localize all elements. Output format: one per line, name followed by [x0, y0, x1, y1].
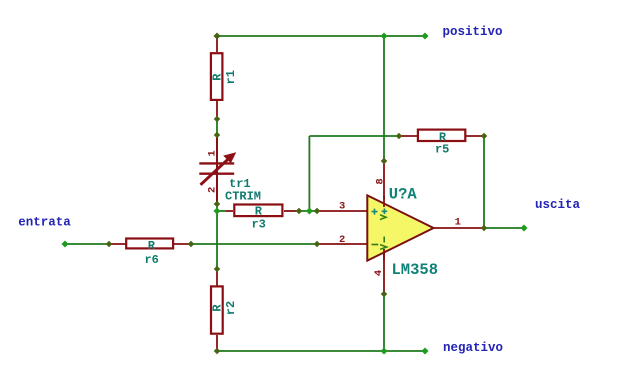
designator r1: [224, 70, 238, 84]
node pin dot pin3 end: [314, 208, 321, 215]
node endpoint negativo: [421, 347, 428, 354]
svg-text:4: 4: [373, 270, 385, 276]
node pin dot pin4 end: [381, 291, 388, 298]
wire bottom negative rail: [217, 350, 425, 352]
node pin dot trimmer bottom: [214, 201, 221, 208]
op-amp V- mark: [380, 237, 387, 250]
wire trimmer through lead: [216, 135, 218, 204]
resistor R6 body: [126, 239, 173, 249]
pin number 4: [373, 270, 385, 276]
resistor R5 body: [418, 130, 465, 141]
wire r5 pin2 lead: [466, 135, 484, 137]
node pin dot output: [481, 225, 488, 232]
svg-text:entrata: entrata: [18, 216, 71, 230]
svg-text:2: 2: [339, 234, 345, 246]
wire r6 pin1 lead: [109, 243, 126, 245]
svg-text:R: R: [211, 73, 225, 81]
wire op-amp pin4 lead: [383, 250, 385, 294]
wire feedback vertical to pin3 node: [308, 136, 310, 211]
svg-text:8: 8: [375, 178, 387, 184]
wire r2 pin1 lead: [216, 269, 218, 286]
wire r6 to pin2: [191, 243, 317, 245]
svg-text:R: R: [211, 304, 225, 312]
node pin dot trimmer top: [214, 132, 221, 139]
op-amp V+ mark: [382, 209, 388, 215]
wire r3 to pin3: [299, 210, 317, 212]
wire left vertical trimmer to r2: [216, 204, 218, 269]
node endpoint uscita: [520, 224, 527, 231]
svg-text:2: 2: [207, 187, 219, 193]
wire r5 pin1 lead: [399, 135, 417, 137]
wire r1 pin1 lead: [216, 36, 218, 52]
wire pin4 interior stub: [383, 249, 385, 260]
wire vertical to op-amp V+: [383, 36, 385, 161]
node pin dot top-left corner: [213, 32, 220, 39]
wire feedback horizontal to r5: [309, 135, 399, 137]
svg-text:negativo: negativo: [443, 341, 503, 355]
node endpoint positivo: [421, 32, 428, 39]
node pin dot r2 bottom: [214, 348, 221, 355]
node pin dot r6 right: [188, 241, 195, 248]
svg-text:CTRIM: CTRIM: [225, 190, 261, 204]
capacitor TR1 trimmer plates: [199, 163, 234, 173]
node pin dot pin2 end: [314, 241, 321, 248]
node pin dot r2 top: [214, 266, 221, 273]
wire entrata to r6: [65, 243, 109, 245]
designator r2: [224, 301, 238, 315]
junction node at feedback/pin3: [306, 207, 313, 214]
wire op-amp pin8 lead: [383, 161, 385, 199]
svg-text:LM358: LM358: [392, 261, 439, 279]
wire op-amp pin2 lead: [317, 243, 368, 245]
wire r3 pin2 lead: [284, 210, 299, 212]
wire r1 to trimmer: [216, 119, 218, 135]
pin number 2 of trimmer: [207, 187, 219, 193]
wire top positive rail: [217, 35, 425, 37]
svg-text:1: 1: [207, 150, 219, 156]
pin number 8: [375, 178, 387, 184]
svg-text:r2: r2: [224, 301, 238, 315]
node pin dot pin8 end: [381, 158, 388, 165]
svg-text:r3: r3: [251, 218, 265, 232]
wire r3 pin1 lead: [226, 210, 233, 212]
value label R of r1: [211, 73, 225, 81]
node pin dot r6 left: [106, 241, 113, 248]
svg-text:U?A: U?A: [389, 186, 418, 204]
junction node at trimmer/r3 tap: [213, 207, 220, 214]
svg-text:uscita: uscita: [535, 198, 581, 212]
junction node at positive rail / V+: [380, 32, 387, 39]
node pin dot r1 bottom: [214, 116, 221, 123]
wire output to uscita: [484, 227, 524, 229]
wire r5 right to output node: [483, 136, 485, 228]
svg-text:positivo: positivo: [443, 25, 503, 39]
capacitor TR1 trimmer arrow: [201, 152, 237, 185]
pin number 1 of trimmer: [207, 150, 219, 156]
wire op-amp pin1 output lead: [433, 227, 484, 229]
junction node at negative rail / pin4: [380, 347, 387, 354]
wire op-amp pin3 lead: [317, 210, 368, 212]
node pin dot r3 right: [296, 208, 303, 215]
wire node to r3: [217, 210, 226, 212]
value label R of r2: [211, 304, 225, 312]
wire r2 pin2 lead: [216, 335, 218, 351]
svg-text:R: R: [148, 239, 156, 253]
node pin dot r5 left: [396, 133, 403, 140]
svg-text:r1: r1: [224, 70, 238, 84]
svg-text:r6: r6: [144, 253, 158, 267]
resistor R3 body: [234, 205, 282, 217]
resistor R2 body: [211, 286, 223, 333]
wire r1 pin2 lead: [216, 101, 218, 119]
op-amp plus input mark: [372, 209, 378, 215]
svg-text:R: R: [255, 205, 263, 219]
svg-text:r5: r5: [435, 143, 449, 157]
op-amp minus input mark: [372, 244, 379, 246]
node pin dot r5 right: [481, 133, 488, 140]
wire pin8 interior stub: [383, 196, 385, 207]
svg-text:3: 3: [339, 201, 345, 213]
node endpoint entrata: [61, 240, 68, 247]
op-amp U1 body: [367, 195, 433, 260]
wire pin4 to negative rail: [383, 294, 385, 351]
wire r6 pin2 lead: [174, 243, 191, 245]
svg-text:1: 1: [455, 217, 461, 229]
resistor R1 body: [211, 53, 223, 100]
